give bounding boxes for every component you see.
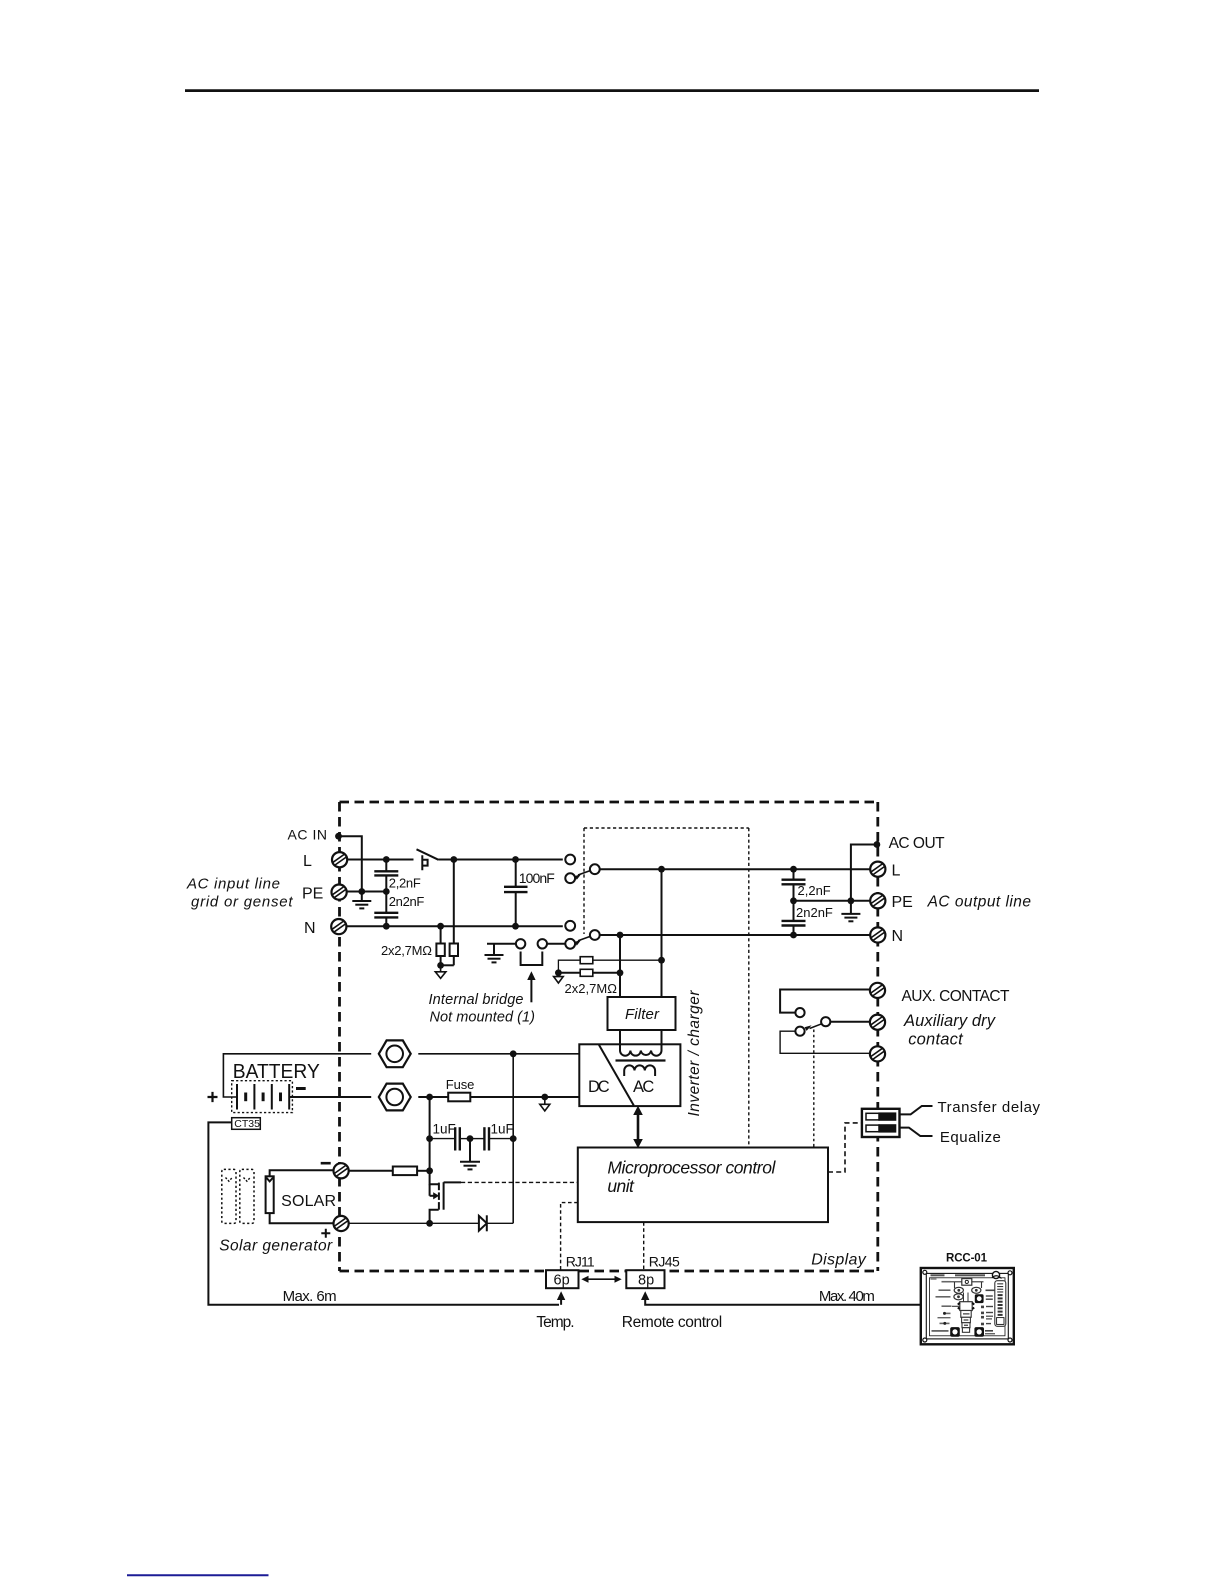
svg-text:AC: AC bbox=[633, 1078, 654, 1096]
resistor R2 2x2,7MOhm right bbox=[441, 860, 458, 966]
wire battery minus line bbox=[289, 1096, 371, 1098]
fuse F1 bbox=[448, 1093, 470, 1102]
transformer T1 core bbox=[616, 1059, 666, 1061]
wire fuse to mosfet node bbox=[417, 1170, 430, 1172]
svg-text:100nF: 100nF bbox=[519, 870, 555, 886]
ground earth between 1uF caps bbox=[460, 1139, 480, 1170]
svg-text:6p: 6p bbox=[554, 1273, 570, 1289]
node AC OUT on enclosure border bbox=[874, 841, 881, 848]
mini flow diagram top bbox=[962, 1279, 972, 1286]
svg-text:RCC-01: RCC-01 bbox=[946, 1253, 988, 1265]
transformer T1 primary winding bbox=[620, 1044, 662, 1055]
solar generator panel dotted cell 2 bbox=[240, 1169, 254, 1223]
label battery minus bbox=[296, 1087, 306, 1090]
svg-text:DC: DC bbox=[588, 1078, 610, 1096]
terminal solar minus bbox=[334, 1163, 349, 1178]
solar generator PV cell G1 bbox=[266, 1176, 274, 1213]
connector RJ45 8p bbox=[626, 1270, 664, 1288]
svg-text:Max. 40m: Max. 40m bbox=[819, 1288, 875, 1305]
capacitor C3 100nF bbox=[504, 860, 528, 927]
svg-text:8p: 8p bbox=[638, 1273, 654, 1289]
wire N output from K2 bbox=[600, 934, 871, 936]
filter block U2 bbox=[608, 997, 676, 1030]
terminal aux 3 bbox=[870, 1046, 885, 1061]
arrow pointing to internal bridge bbox=[527, 971, 535, 1002]
svg-text:Internal bridge: Internal bridge bbox=[429, 992, 524, 1008]
wire solar minus loop bbox=[270, 1170, 334, 1176]
terminal aux 1 bbox=[870, 983, 885, 998]
svg-text:L: L bbox=[303, 853, 312, 870]
wire aux terminal 1 to relay bbox=[780, 990, 870, 1013]
svg-text:Solar generator: Solar generator bbox=[219, 1237, 333, 1254]
bottom blue rule bbox=[127, 1574, 269, 1576]
wire battery minus to fuse bbox=[418, 1096, 448, 1098]
terminal L AC out bbox=[870, 862, 885, 877]
wire remote control cable bbox=[645, 1297, 921, 1305]
capacitor C6 1uF left bbox=[430, 1127, 470, 1150]
label CT35 bbox=[232, 1118, 261, 1130]
capacitor C5 2n2nF output bbox=[782, 901, 806, 935]
inner dotted box (inverter/charger section) bbox=[584, 828, 749, 1148]
wire battery plus riser bbox=[223, 1054, 371, 1097]
battery dotted outline bbox=[232, 1081, 293, 1113]
wire N input line bbox=[346, 925, 562, 927]
terminal PE AC out bbox=[870, 893, 885, 908]
two oval nodes bbox=[954, 1287, 963, 1293]
terminal L AC in bbox=[332, 852, 347, 867]
relay changeover contact K1 (L) bbox=[565, 855, 599, 884]
svg-text:L: L bbox=[892, 863, 901, 880]
main unit dashed enclosure bbox=[340, 802, 878, 1271]
wire L input line bbox=[347, 859, 414, 861]
terminal PE AC in bbox=[332, 885, 347, 900]
wire solar minus to fuse bbox=[349, 1170, 393, 1172]
wire gate dashed to microprocessor bbox=[461, 1181, 578, 1183]
wire filter to transformer left bbox=[619, 1030, 621, 1051]
arrow between 6p and 8p bbox=[581, 1276, 621, 1283]
wire diode to plus rail bbox=[487, 1222, 513, 1224]
label battery plus bbox=[208, 1092, 218, 1102]
wire CT35 temperature sensor cable bbox=[208, 1122, 559, 1304]
ground arrow at inverter DC minus bbox=[540, 1097, 550, 1111]
leader to Equalize bbox=[900, 1128, 933, 1136]
diode D1 bbox=[479, 1215, 487, 1231]
corner screws bbox=[923, 1270, 927, 1274]
transformer T1 secondary winding bbox=[624, 1065, 655, 1076]
battery B1 symbol bbox=[237, 1084, 289, 1110]
svg-text:Temp.: Temp. bbox=[536, 1314, 574, 1331]
wire dashed microprocessor to RJ11 bbox=[561, 1203, 578, 1271]
svg-text:2x2,7MΩ: 2x2,7MΩ bbox=[381, 943, 432, 958]
svg-text:2,2nF: 2,2nF bbox=[798, 883, 831, 898]
svg-text:AC input line: AC input line bbox=[186, 876, 280, 893]
wire minus rail down bbox=[429, 1097, 431, 1171]
terminal N AC in bbox=[331, 919, 346, 934]
svg-text:1uF: 1uF bbox=[491, 1122, 514, 1137]
wire L output from K1 bbox=[600, 868, 871, 870]
svg-text:SOLAR: SOLAR bbox=[281, 1193, 336, 1210]
svg-text:Inverter / charger: Inverter / charger bbox=[686, 990, 703, 1117]
inverter/charger block U1 bbox=[579, 1044, 680, 1106]
wire PE output line bbox=[794, 900, 871, 902]
arrow inverter to microprocessor (double) bbox=[633, 1106, 643, 1148]
center stack bbox=[964, 1293, 969, 1303]
svg-text:Max. 6m: Max. 6m bbox=[283, 1288, 337, 1305]
wire battery plus to inverter bbox=[418, 1053, 579, 1055]
leader to Transfer delay bbox=[900, 1106, 933, 1114]
wire aux common to terminal 2 bbox=[830, 1021, 870, 1023]
inverter diagonal divider bbox=[599, 1045, 634, 1106]
wire aux terminal 3 to relay bbox=[780, 1031, 870, 1053]
feedthrough terminal battery minus bbox=[379, 1084, 411, 1111]
resistor R3 2x2,7MOhm output upper bbox=[558, 957, 661, 973]
label solar minus bbox=[321, 1162, 331, 1165]
transistor Q1 mosfet bbox=[430, 1171, 461, 1224]
wire AC IN to PE junction bbox=[339, 836, 362, 891]
svg-text:Remote control: Remote control bbox=[622, 1314, 722, 1331]
svg-text:2x2,7MΩ: 2x2,7MΩ bbox=[565, 981, 618, 996]
svg-text:CT35: CT35 bbox=[234, 1118, 260, 1130]
microprocessor control unit block U3 bbox=[578, 1148, 828, 1223]
node AC IN on enclosure border bbox=[335, 833, 362, 892]
svg-text:AC OUT: AC OUT bbox=[889, 835, 946, 852]
wire dashed microprocessor to jumpers bbox=[828, 1123, 862, 1172]
wire dashed microprocessor to RJ45 bbox=[643, 1222, 645, 1270]
wire PE input line bbox=[347, 891, 387, 893]
arrow into 6p connector bbox=[557, 1291, 565, 1300]
svg-text:BATTERY: BATTERY bbox=[233, 1060, 320, 1083]
jumper block transfer/equalize bbox=[862, 1109, 900, 1137]
svg-text:1uF: 1uF bbox=[433, 1122, 456, 1137]
wire L tap down to filter bbox=[661, 869, 663, 997]
fuse F2 solar bbox=[393, 1167, 417, 1176]
svg-text:Transfer delay: Transfer delay bbox=[938, 1099, 1041, 1116]
relay changeover contact K2 (N) bbox=[565, 921, 599, 949]
ground internal bridge earth bbox=[485, 944, 504, 963]
top horizontal rule bbox=[185, 89, 1039, 92]
svg-text:AUX. CONTACT: AUX. CONTACT bbox=[902, 988, 1011, 1005]
svg-text:PE: PE bbox=[302, 885, 323, 902]
svg-text:unit: unit bbox=[607, 1176, 635, 1196]
node battery plus tap bbox=[510, 1050, 517, 1057]
arrow into 8p connector bbox=[641, 1291, 649, 1300]
capacitor C4 2,2nF output bbox=[782, 869, 806, 901]
svg-text:2n2nF: 2n2nF bbox=[389, 894, 425, 909]
svg-text:Filter: Filter bbox=[625, 1006, 660, 1023]
wire solar plus loop bbox=[270, 1213, 334, 1223]
bottom buttons bbox=[950, 1327, 960, 1337]
right tiny labels + leds bbox=[981, 1290, 995, 1326]
node battery minus junction bbox=[426, 1094, 433, 1101]
capacitor C2 2n2nF bbox=[374, 892, 398, 927]
terminal N AC out bbox=[870, 927, 885, 942]
svg-text:N: N bbox=[892, 928, 904, 945]
header text smudges bbox=[931, 1274, 945, 1276]
internal bridge contact pins bbox=[487, 939, 565, 948]
capacitor C7 1uF right bbox=[470, 1127, 513, 1150]
switch S1 blade bbox=[417, 849, 439, 860]
internal bridge removable link bbox=[521, 952, 543, 966]
RCC-01 remote control panel bbox=[921, 1268, 1014, 1344]
ground earth symbol at PE input bbox=[352, 892, 371, 909]
node L to filter bbox=[658, 866, 665, 873]
right bargraph bbox=[995, 1281, 1006, 1327]
wire solar plus to diode bbox=[349, 1222, 479, 1224]
resistor R1 2x2,7MOhm left bbox=[436, 926, 444, 965]
svg-text:Auxiliary dry: Auxiliary dry bbox=[903, 1012, 997, 1030]
svg-text:Equalize: Equalize bbox=[940, 1129, 1001, 1146]
svg-text:PE: PE bbox=[892, 894, 913, 911]
wire plus rail down bbox=[512, 1054, 514, 1224]
node PE junction bbox=[358, 888, 365, 895]
node chassis tap bbox=[541, 1094, 548, 1101]
wire AC OUT drop to PE bbox=[851, 845, 877, 901]
button top right bbox=[975, 1294, 984, 1303]
terminal solar plus bbox=[334, 1216, 349, 1231]
wire aux actuator dotted to microprocessor bbox=[813, 1030, 815, 1148]
relay aux changeover contact K3 bbox=[795, 1008, 830, 1036]
feedthrough terminal battery plus bbox=[379, 1040, 411, 1067]
ground arrow below R3/R4 bbox=[554, 977, 564, 983]
ground earth symbol at PE output bbox=[841, 901, 860, 922]
wire L after switch bbox=[439, 859, 563, 861]
svg-text:N: N bbox=[304, 920, 316, 937]
wire filter to transformer right bbox=[661, 1030, 663, 1051]
wire N tap down to filter bbox=[619, 935, 621, 997]
connector RJ11 6p bbox=[546, 1270, 579, 1288]
terminal aux 2 bbox=[870, 1015, 885, 1030]
svg-text:2n2nF: 2n2nF bbox=[796, 905, 833, 920]
svg-text:2,2nF: 2,2nF bbox=[389, 876, 421, 891]
solar generator panel dotted cell 1 bbox=[222, 1169, 236, 1223]
svg-text:Fuse: Fuse bbox=[446, 1077, 475, 1092]
left tiny labels bbox=[932, 1281, 952, 1332]
svg-text:Display: Display bbox=[811, 1252, 866, 1269]
svg-text:grid or genset: grid or genset bbox=[191, 894, 293, 911]
logo circle bbox=[992, 1271, 999, 1278]
label solar plus bbox=[321, 1229, 330, 1238]
capacitor C1 2,2nF bbox=[374, 860, 398, 892]
svg-text:RJ11: RJ11 bbox=[566, 1254, 595, 1270]
switch S1 actuator bbox=[422, 855, 427, 870]
svg-text:Microprocessor control: Microprocessor control bbox=[607, 1157, 776, 1177]
resistor R4 2x2,7MOhm output lower bbox=[558, 969, 620, 976]
svg-text:AC output line: AC output line bbox=[927, 893, 1032, 910]
ground arrow below R1/R2 bbox=[435, 965, 446, 978]
svg-text:Not mounted (1): Not mounted (1) bbox=[430, 1009, 536, 1025]
node N to filter bbox=[617, 932, 624, 939]
wire fuse to inverter bbox=[470, 1096, 579, 1098]
svg-text:AC IN: AC IN bbox=[288, 827, 328, 843]
svg-text:contact: contact bbox=[908, 1031, 964, 1049]
svg-text:RJ45: RJ45 bbox=[649, 1254, 680, 1270]
